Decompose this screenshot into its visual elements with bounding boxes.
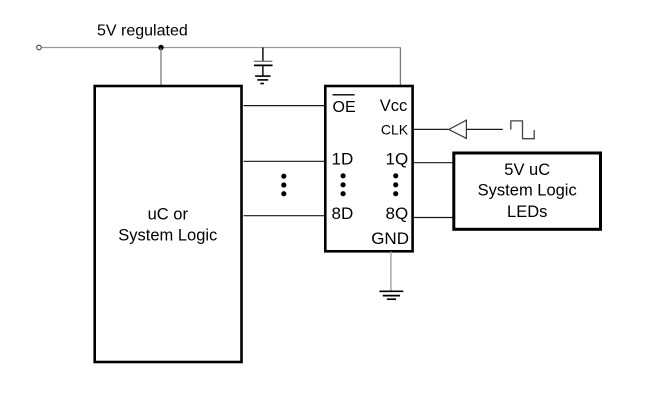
svg-text:5V uC: 5V uC: [504, 161, 550, 179]
svg-text:CLK: CLK: [381, 122, 409, 138]
svg-text:LEDs: LEDs: [507, 203, 547, 221]
svg-text:GND: GND: [371, 229, 409, 248]
svg-text:Vcc: Vcc: [380, 97, 408, 115]
svg-text:OE: OE: [333, 99, 356, 116]
svg-text:5V regulated: 5V regulated: [97, 23, 188, 40]
svg-text:8Q: 8Q: [386, 204, 409, 223]
svg-text:System Logic: System Logic: [118, 226, 217, 244]
svg-text:1Q: 1Q: [386, 149, 409, 168]
svg-text:8D: 8D: [332, 204, 354, 223]
svg-text:uC or: uC or: [148, 206, 189, 224]
svg-text:System Logic: System Logic: [478, 182, 577, 200]
svg-text:1D: 1D: [332, 149, 354, 168]
